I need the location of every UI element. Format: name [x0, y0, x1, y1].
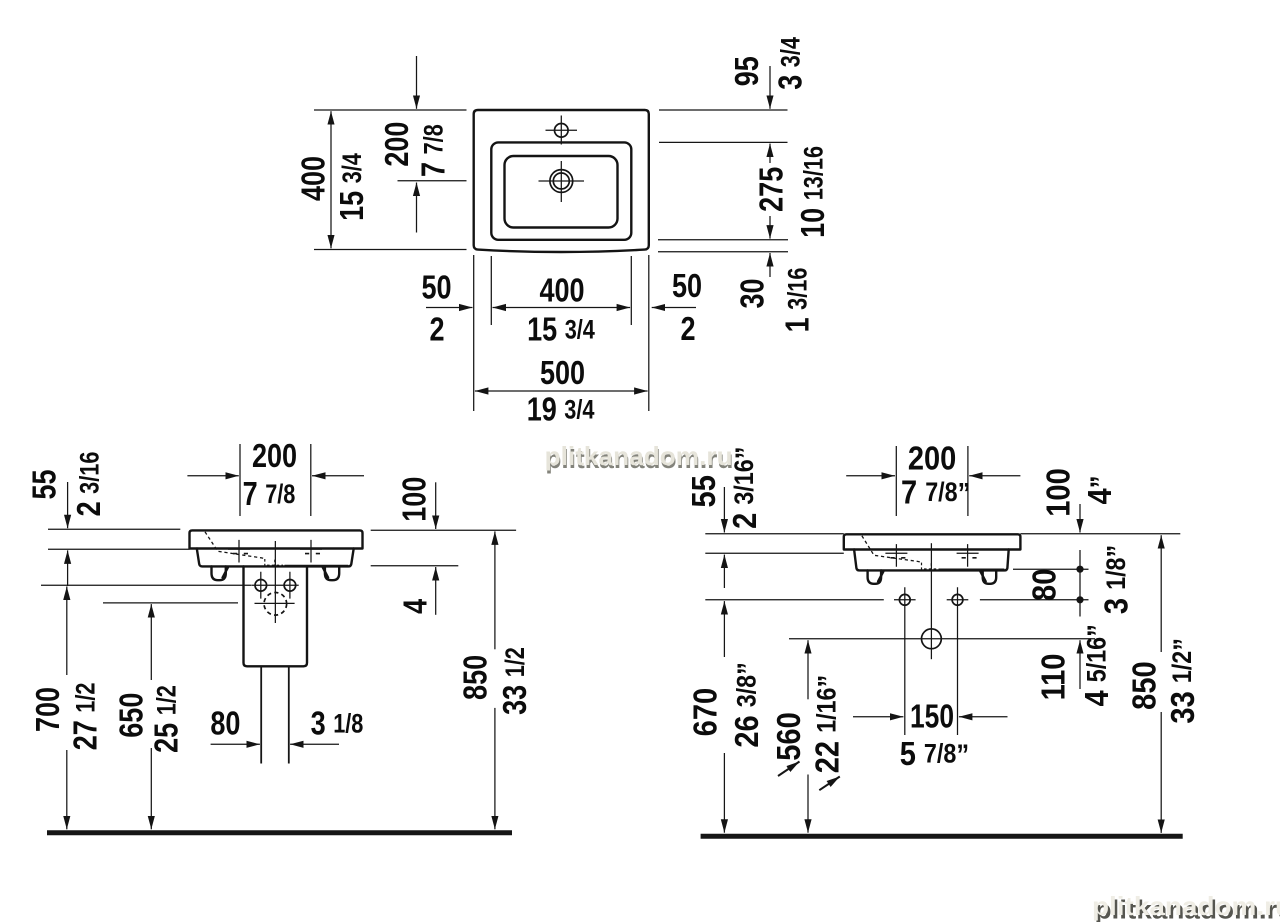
svg-text:3 1/8”: 3 1/8” [1098, 545, 1135, 614]
left view: right mounting foot [325, 566, 339, 580]
svg-text:15 3/4: 15 3/4 [527, 312, 595, 348]
dim 400 / 15 3/4 (left vertical) [330, 111, 332, 180]
svg-text:400: 400 [296, 156, 332, 201]
svg-text:55: 55 [27, 469, 63, 499]
right view: faucet hole marks [885, 544, 907, 567]
svg-text:850: 850 [1126, 661, 1163, 709]
svg-text:33 1/2: 33 1/2 [497, 647, 533, 715]
svg-text:2 3/16: 2 3/16 [72, 452, 108, 517]
svg-text:30: 30 [735, 278, 771, 308]
right view: extension lines [705, 446, 1180, 735]
dim 200 / 7 7/8 (left view) [187, 475, 238, 477]
right view: floor line [701, 834, 1183, 839]
svg-text:15 3/4: 15 3/4 [334, 153, 370, 221]
svg-text:55: 55 [685, 475, 722, 507]
dim 95 / 3 3/4 [769, 66, 771, 109]
svg-text:25 1/2: 25 1/2 [149, 685, 185, 753]
top view: basin bottom [505, 156, 618, 228]
svg-text:500: 500 [540, 355, 585, 391]
dim 200 / 7 7/8 in (right view) [846, 475, 895, 477]
svg-text:80: 80 [1026, 569, 1063, 601]
dim 650 / 25 1/2 [150, 604, 152, 680]
top view: inner rim opening [491, 142, 631, 239]
svg-text:19 3/4: 19 3/4 [527, 392, 595, 428]
svg-text:150: 150 [910, 699, 954, 735]
dim 50 / 2 (bottom right) [652, 307, 696, 309]
right view: dimension dots 80 [1076, 566, 1083, 573]
svg-text:275: 275 [754, 167, 790, 212]
svg-text:200: 200 [380, 122, 416, 167]
left view: extension lines [41, 444, 516, 603]
dim 700 / 27 1/2 [66, 587, 68, 676]
direction arrows for 560 [778, 762, 800, 777]
svg-text:26 3/8”: 26 3/8” [729, 662, 766, 748]
svg-text:22 1/16”: 22 1/16” [809, 675, 846, 774]
left view: basin slab [190, 530, 363, 548]
top view: extension lines [314, 110, 788, 411]
svg-text:650: 650 [114, 693, 150, 738]
dim 55 / 2 3/16 (left view) [67, 482, 69, 528]
svg-text:27 1/2: 27 1/2 [68, 683, 104, 751]
dim 100 (left view) [435, 482, 437, 529]
svg-text:200: 200 [908, 440, 956, 477]
left view: basin body [197, 549, 354, 567]
svg-text:400: 400 [539, 273, 584, 309]
dim 670 / 26 3/8 in [723, 601, 725, 657]
top view: drain hole [550, 170, 573, 193]
svg-text:100: 100 [1040, 468, 1077, 516]
dim 400 / 15 3/4 (bottom) [493, 307, 562, 309]
svg-text:plitkanadom.ru: plitkanadom.ru [1092, 891, 1280, 921]
dim 850 / 33 1/2 in (right view) [1160, 535, 1162, 652]
dim 100 / 4 in (right view) [1079, 504, 1081, 533]
svg-text:4”: 4” [1081, 476, 1118, 505]
left view: faucet hole marks [228, 540, 250, 563]
top view: faucet hole [555, 124, 569, 138]
left view: fixing holes [255, 580, 267, 592]
dim 50 / 2 (bottom left) [426, 307, 473, 309]
right view: basin slab [844, 534, 1021, 549]
svg-text:560: 560 [770, 712, 807, 760]
dim 4 (left view) [435, 567, 437, 615]
svg-text:4: 4 [398, 599, 434, 614]
dim 275 / 10 13/16 [769, 144, 771, 163]
right view: drain outlet circle [922, 629, 942, 649]
svg-text:100: 100 [397, 477, 433, 522]
left view: drain pipe [261, 666, 289, 763]
svg-text:850: 850 [458, 655, 494, 700]
svg-text:4 5/16”: 4 5/16” [1078, 624, 1115, 706]
dim 80 / 3 1/8 (left view) [211, 743, 260, 745]
dim 55 / 2 3/16 in (right view) [723, 487, 725, 533]
svg-text:plitkanadom.ru: plitkanadom.ru [545, 441, 733, 471]
svg-text:50: 50 [672, 268, 702, 304]
dim 150 / 5 7/8 in [853, 716, 903, 718]
dim 500 / 19 3/4 [475, 390, 561, 392]
svg-text:700: 700 [30, 687, 66, 732]
svg-text:7 7/8: 7 7/8 [416, 124, 452, 177]
svg-text:2: 2 [680, 311, 695, 347]
right view: basin body [854, 550, 1009, 571]
svg-text:670: 670 [687, 688, 724, 736]
dim 200 / 7 7/8 (top) [416, 56, 418, 109]
left view: overflow dashed outline [205, 532, 265, 559]
dim 30 / 1 3/16 [769, 253, 771, 277]
left view: left mounting foot [212, 566, 226, 580]
dim 110 / 4 5/16 in [1079, 640, 1081, 689]
left view: siphon cover box [244, 566, 308, 666]
left view: siphon circle (dashed) [264, 593, 287, 616]
svg-text:33 1/2”: 33 1/2” [1164, 638, 1201, 724]
left view: floor line [47, 830, 512, 835]
svg-text:80: 80 [210, 706, 240, 742]
top view: washbasin outer rim (500 x 400) [474, 110, 649, 252]
svg-text:1 3/16: 1 3/16 [780, 268, 816, 333]
svg-text:5 7/8”: 5 7/8” [900, 735, 969, 772]
right view: fixing holes [899, 594, 910, 605]
svg-text:3 1/8: 3 1/8 [311, 706, 364, 742]
svg-text:7 7/8”: 7 7/8” [901, 474, 970, 511]
dim 850 / 33 1/2 (left view) [494, 531, 496, 649]
svg-text:7 7/8: 7 7/8 [243, 476, 296, 512]
svg-text:3 3/4: 3 3/4 [773, 37, 809, 90]
svg-text:10 13/16: 10 13/16 [796, 146, 832, 238]
svg-text:50: 50 [421, 270, 451, 306]
right view: overflow dashed outline [862, 536, 921, 562]
svg-text:200: 200 [252, 438, 297, 474]
left view: centerline [274, 541, 276, 623]
svg-text:110: 110 [1035, 654, 1072, 701]
svg-text:2: 2 [429, 312, 444, 348]
svg-text:95: 95 [730, 56, 766, 86]
right view: left mounting foot [868, 570, 882, 583]
right view: centerline [930, 543, 932, 659]
right view: right mounting foot [983, 570, 997, 583]
dim 560 / 22 1/16 in [807, 640, 809, 699]
